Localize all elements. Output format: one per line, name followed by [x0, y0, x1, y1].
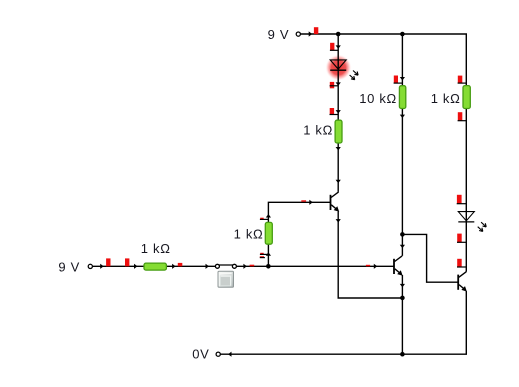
svg-text:1 kΩ: 1 kΩ [431, 91, 461, 106]
svg-text:1 kΩ: 1 kΩ [234, 227, 264, 242]
svg-text:0V: 0V [192, 346, 209, 361]
svg-text:9 V: 9 V [268, 27, 290, 42]
svg-text:10 kΩ: 10 kΩ [359, 91, 397, 106]
svg-text:1 kΩ: 1 kΩ [141, 241, 171, 256]
svg-text:9 V: 9 V [58, 259, 80, 274]
svg-text:1 kΩ: 1 kΩ [303, 123, 333, 138]
